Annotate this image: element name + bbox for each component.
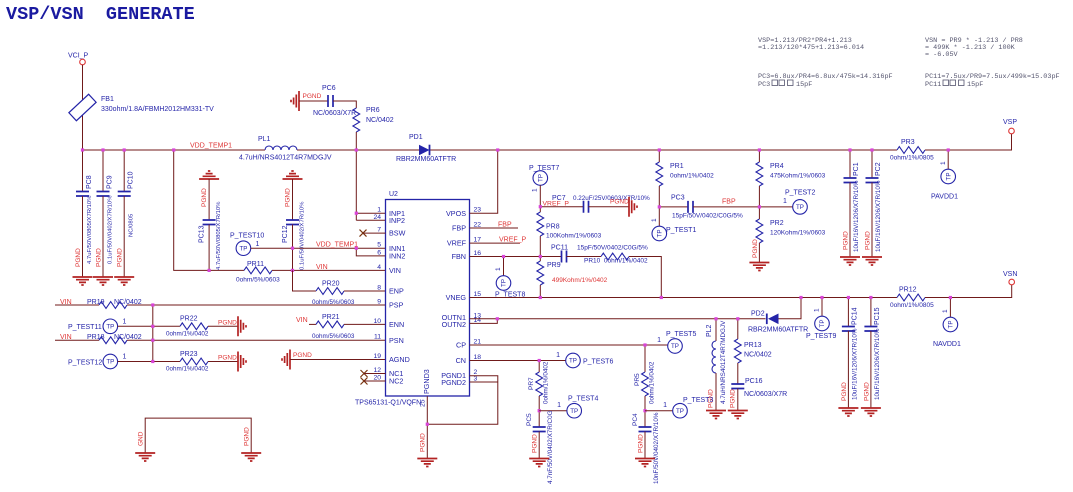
no-connect NC2 pin 20 <box>361 378 368 385</box>
svg-text:4.7uH/NRS4012T4R7MDGJV: 4.7uH/NRS4012T4R7MDGJV <box>720 320 727 404</box>
svg-text:0ohm/1%/0402: 0ohm/1%/0402 <box>670 173 714 180</box>
svg-text:21: 21 <box>474 339 482 346</box>
svg-text:1: 1 <box>657 337 661 344</box>
testpoint P_TEST4 <box>539 410 567 412</box>
svg-text:0ohm/1%/0402: 0ohm/1%/0402 <box>543 361 550 404</box>
resistor PR7 <box>538 361 540 373</box>
svg-text:VREF: VREF <box>447 239 467 248</box>
svg-text:PR8: PR8 <box>546 224 560 231</box>
resistor PR11 <box>243 269 245 271</box>
svg-text:PC11: PC11 <box>925 81 941 89</box>
svg-text:VIN: VIN <box>316 264 328 271</box>
resistor PR10 series <box>601 253 629 260</box>
wire main rail VDD_TEMP1 <box>83 149 266 151</box>
svg-text:U2: U2 <box>389 191 398 198</box>
svg-text:PC10: PC10 <box>128 171 135 189</box>
svg-text:TP: TP <box>819 320 826 328</box>
svg-text:0ohm/1%/0402: 0ohm/1%/0402 <box>166 366 209 373</box>
svg-text:TP: TP <box>569 358 577 365</box>
svg-text:NC/0402: NC/0402 <box>744 352 772 359</box>
op-amp U2 TPS65131 body <box>386 200 470 397</box>
svg-text:PR20: PR20 <box>322 281 340 288</box>
wire pad pin 25 <box>426 396 428 458</box>
svg-text:15pF/50V/0402/C0G/5%: 15pF/50V/0402/C0G/5% <box>577 245 648 252</box>
svg-text:VNEG: VNEG <box>446 293 467 302</box>
diode PD2 <box>768 314 779 325</box>
svg-text:= -6.05V: = -6.05V <box>925 51 959 59</box>
svg-text:4.7uF/50V/0805/X7R/10%: 4.7uF/50V/0805/X7R/10% <box>216 201 222 270</box>
svg-text:14: 14 <box>474 317 482 324</box>
svg-text:TP: TP <box>106 324 114 331</box>
capacitor PC11 series <box>562 251 567 263</box>
svg-text:RBR2MM60ATFTR: RBR2MM60ATFTR <box>748 327 808 334</box>
no-connect NC1 pin 12 <box>361 370 368 377</box>
resistor PR13 <box>737 319 739 339</box>
svg-text:PR2: PR2 <box>770 220 784 227</box>
svg-text:PSP: PSP <box>389 301 404 310</box>
svg-text:PC2: PC2 <box>875 162 882 176</box>
wire VREF pin 17 stub <box>470 242 521 244</box>
svg-text:20: 20 <box>373 375 381 382</box>
svg-text:11: 11 <box>374 334 381 341</box>
svg-text:PC13: PC13 <box>199 225 206 243</box>
svg-text:VIN: VIN <box>389 266 401 275</box>
svg-text:9: 9 <box>377 299 381 306</box>
svg-text:TP: TP <box>671 343 679 350</box>
svg-text:VDD_TEMP1: VDD_TEMP1 <box>190 143 232 150</box>
svg-text:15pF: 15pF <box>796 81 812 89</box>
svg-text:TP: TP <box>570 408 578 415</box>
svg-text:10: 10 <box>373 318 381 325</box>
svg-text:10uF/16V/1206/X7R/10%: 10uF/16V/1206/X7R/10% <box>874 328 881 400</box>
svg-text:P_TEST4: P_TEST4 <box>568 396 598 403</box>
svg-text:P_TEST5: P_TEST5 <box>666 331 696 338</box>
resistor PR9 <box>537 261 544 285</box>
svg-text:PGND: PGND <box>610 199 629 206</box>
svg-text:12: 12 <box>373 367 381 374</box>
svg-text:VDD_TEMP1: VDD_TEMP1 <box>316 242 358 249</box>
junction VREF_P node <box>539 205 542 208</box>
svg-text:0ohm/1%/0402: 0ohm/1%/0402 <box>649 361 656 404</box>
svg-text:CP: CP <box>456 341 466 350</box>
svg-text:1: 1 <box>532 188 539 192</box>
svg-text:TP: TP <box>538 174 545 182</box>
svg-text:TP: TP <box>239 245 247 252</box>
svg-text:0.1uF/50V/0402/X7R/10%: 0.1uF/50V/0402/X7R/10% <box>108 195 114 264</box>
svg-text:PR7: PR7 <box>528 377 535 390</box>
svg-text:PC1: PC1 <box>853 162 860 176</box>
wire VCI_P to rail <box>82 65 84 150</box>
wire INP1 INP2 feed <box>356 212 385 214</box>
svg-text:P_TEST6: P_TEST6 <box>583 359 613 366</box>
svg-text:TP: TP <box>106 359 114 366</box>
svg-text:0ohm/5%/0603: 0ohm/5%/0603 <box>312 299 355 306</box>
svg-text:18: 18 <box>474 354 482 361</box>
svg-text:PR12: PR12 <box>899 287 917 294</box>
resistor PR23 to PGND <box>118 361 180 363</box>
capacitor PC8 <box>82 150 84 192</box>
svg-text:PR3: PR3 <box>901 139 915 146</box>
resistor PR6 <box>353 108 360 132</box>
svg-text:7: 7 <box>377 227 381 234</box>
svg-text:PGND: PGND <box>284 188 291 207</box>
svg-text:FB1: FB1 <box>101 96 114 103</box>
svg-text:PR4: PR4 <box>770 163 784 170</box>
svg-text:25: 25 <box>420 399 427 407</box>
testpoint P_TEST2 <box>759 206 792 208</box>
inductor PL1 <box>265 146 297 150</box>
svg-text:24: 24 <box>373 214 381 221</box>
svg-text:PR6: PR6 <box>366 107 380 114</box>
ferrite bead FB1 <box>69 94 96 120</box>
testpoint P_TEST8 <box>503 257 505 276</box>
svg-text:1: 1 <box>783 198 787 205</box>
wire FBP pin 22 stub <box>470 227 519 229</box>
svg-text:PR1: PR1 <box>670 163 684 170</box>
svg-text:VIN: VIN <box>296 317 308 324</box>
svg-text:P_TEST7: P_TEST7 <box>529 165 559 172</box>
svg-text:PC12: PC12 <box>282 225 289 243</box>
svg-text:22: 22 <box>474 222 482 229</box>
svg-text:TP: TP <box>657 230 664 238</box>
svg-text:17: 17 <box>474 237 482 244</box>
svg-text:VSP: VSP <box>1003 119 1017 126</box>
svg-text:10nF/50V/0402/X7R/10%: 10nF/50V/0402/X7R/10% <box>653 412 660 484</box>
svg-text:PR23: PR23 <box>180 351 198 358</box>
svg-text:TP: TP <box>948 321 955 329</box>
svg-text:1: 1 <box>495 267 502 271</box>
resistor PR22 to PGND <box>118 325 180 327</box>
svg-text:4: 4 <box>377 264 381 271</box>
wire VPOS pin 23 to rail <box>470 150 498 213</box>
svg-text:PGND: PGND <box>752 239 759 258</box>
svg-text:PL1: PL1 <box>258 136 271 143</box>
svg-text:PD1: PD1 <box>409 134 423 141</box>
svg-text:8: 8 <box>377 285 381 292</box>
svg-text:1: 1 <box>556 352 560 359</box>
svg-text:FBP: FBP <box>722 199 736 206</box>
wire PD2 anode to VNEG <box>779 298 802 319</box>
svg-text:NC/0603/X7R: NC/0603/X7R <box>744 391 787 398</box>
power PGND for AGND pin <box>282 350 290 370</box>
svg-text:PC8: PC8 <box>86 175 93 189</box>
svg-text:INP2: INP2 <box>389 216 405 225</box>
resistor PR5 <box>644 345 646 372</box>
capacitor PC13 <box>199 171 219 179</box>
svg-text:NAVDD1: NAVDD1 <box>933 341 961 348</box>
svg-text:PGND: PGND <box>532 434 539 453</box>
svg-text:PC14: PC14 <box>852 307 859 325</box>
svg-text:15pF/50V/0402/C0G/5%: 15pF/50V/0402/C0G/5% <box>672 213 743 220</box>
wire rail drop to VIN line <box>174 150 244 270</box>
svg-text:PGND: PGND <box>865 231 872 250</box>
wire P_TEST7 to VREF_P node <box>539 185 541 206</box>
svg-text:1: 1 <box>557 402 561 409</box>
svg-text:1: 1 <box>651 218 658 222</box>
svg-text:PGND: PGND <box>201 188 208 207</box>
svg-text:15pF: 15pF <box>967 81 983 89</box>
svg-text:NC/0805: NC/0805 <box>129 213 135 237</box>
svg-text:PC7: PC7 <box>552 195 566 202</box>
svg-text:PC15: PC15 <box>874 307 881 325</box>
svg-text:0ohm/5%/0603: 0ohm/5%/0603 <box>312 333 355 340</box>
capacitor PC15 <box>870 298 872 327</box>
wire to VSN port <box>925 285 1012 298</box>
svg-text:10uF/16V/1206/X7R/10%: 10uF/16V/1206/X7R/10% <box>875 180 882 252</box>
svg-text:1: 1 <box>123 354 127 361</box>
svg-text:PGND2: PGND2 <box>441 378 466 387</box>
svg-text:0ohm/1%/0805: 0ohm/1%/0805 <box>890 155 934 162</box>
note VSP formula <box>758 37 864 52</box>
svg-text:BSW: BSW <box>389 229 406 238</box>
wire FBN pin 16 line <box>470 256 562 258</box>
svg-text:P_TEST10: P_TEST10 <box>230 233 264 240</box>
svg-text:PC3: PC3 <box>671 195 685 202</box>
svg-text:PC6: PC6 <box>322 85 336 92</box>
svg-text:499Kohm/1%/0402: 499Kohm/1%/0402 <box>552 277 608 284</box>
svg-text:15: 15 <box>474 291 482 298</box>
svg-text:PGND: PGND <box>75 248 82 267</box>
diode PD1 <box>419 145 430 156</box>
svg-text:0ohm/1%/0402: 0ohm/1%/0402 <box>166 331 209 338</box>
wire PGND1 PGND2 to pad <box>427 376 498 425</box>
testpoint P_TEST3 <box>645 410 673 412</box>
svg-text:PR22: PR22 <box>180 316 198 323</box>
svg-text:4.7uH/NRS4012T4R7MDGJV: 4.7uH/NRS4012T4R7MDGJV <box>239 155 332 162</box>
note VSN formula <box>925 37 1023 59</box>
svg-text:RBR2MM60ATFTR: RBR2MM60ATFTR <box>396 156 456 163</box>
capacitor PC4 <box>639 427 652 432</box>
svg-text:1: 1 <box>256 241 260 248</box>
svg-text:TPS65131-Q1/VQFN: TPS65131-Q1/VQFN <box>355 400 421 407</box>
svg-text:120Kohm/1%/0603: 120Kohm/1%/0603 <box>770 230 826 237</box>
capacitor PC2 <box>871 150 873 178</box>
svg-text:AGND: AGND <box>389 355 410 364</box>
svg-text:P_TEST1: P_TEST1 <box>666 227 696 234</box>
svg-text:PR11: PR11 <box>247 261 264 268</box>
resistor PR2 to PGND <box>756 219 763 243</box>
svg-text:PC16: PC16 <box>745 378 763 385</box>
wire OUTN1 OUTN2 merge <box>470 318 766 320</box>
svg-text:=1.213/120*475+1.213=6.014: =1.213/120*475+1.213=6.014 <box>758 44 864 52</box>
svg-text:100Kohm/1%/0603: 100Kohm/1%/0603 <box>546 233 602 240</box>
svg-text:PR10 0ohm/1%/0402: PR10 0ohm/1%/0402 <box>584 258 648 265</box>
svg-text:TP: TP <box>676 408 684 415</box>
resistor PR3 <box>897 147 925 154</box>
svg-text:PGND: PGND <box>730 389 737 408</box>
svg-text:P_TEST3: P_TEST3 <box>683 397 713 404</box>
testpoint P_TEST9 <box>821 298 823 317</box>
wire CN pin 18 line <box>470 360 566 362</box>
svg-text:4.7uF/50V/0805/X7R/10%: 4.7uF/50V/0805/X7R/10% <box>87 195 93 264</box>
svg-text:10uF/16V/1206/X7R/10%: 10uF/16V/1206/X7R/10% <box>852 328 859 400</box>
capacitor PC14 <box>847 298 849 327</box>
testpoint PAVDD1 <box>947 150 949 169</box>
testpoint P_TEST1 <box>658 207 660 226</box>
capacitor PC12 <box>283 171 303 179</box>
testpoint NAVDD1 <box>949 298 951 318</box>
svg-text:PGND: PGND <box>638 434 645 453</box>
svg-text:TP: TP <box>945 173 952 181</box>
svg-text:PGND: PGND <box>218 355 237 362</box>
svg-text:PD2: PD2 <box>751 311 765 318</box>
svg-text:VSP/VSN GENERATE: VSP/VSN GENERATE <box>6 4 195 25</box>
svg-text:VSN: VSN <box>1003 271 1017 278</box>
svg-text:FBP: FBP <box>498 222 512 229</box>
svg-text:GND: GND <box>138 431 145 446</box>
resistor PR1 <box>658 150 660 162</box>
note PC11 value calc <box>925 73 1060 89</box>
capacitor PC9 <box>102 150 104 192</box>
capacitor PC5 <box>533 427 546 432</box>
svg-text:6: 6 <box>377 249 381 256</box>
inductor PL2 <box>715 319 717 341</box>
svg-text:FBN: FBN <box>452 252 466 261</box>
svg-text:PGND: PGND <box>843 231 850 250</box>
svg-text:NC2: NC2 <box>389 377 403 386</box>
svg-text:23: 23 <box>474 207 482 214</box>
svg-text:PC4: PC4 <box>632 413 639 426</box>
wire VDD_TEMP1 to INN pins <box>251 247 386 249</box>
capacitor PC16 <box>731 384 744 389</box>
svg-text:PL2: PL2 <box>706 324 713 337</box>
svg-text:PC3=6.8ux/PR4=6.8ux/475k=14.31: PC3=6.8ux/PR4=6.8ux/475k=14.316pF <box>758 73 893 81</box>
svg-text:PGND: PGND <box>218 320 237 327</box>
svg-text:P_TEST11: P_TEST11 <box>68 324 102 331</box>
svg-text:PAVDD1: PAVDD1 <box>931 194 958 201</box>
svg-text:OUTN2: OUTN2 <box>442 320 466 329</box>
svg-text:ENN: ENN <box>389 320 404 329</box>
svg-text:10uF/16V/1206/X7R/10%: 10uF/16V/1206/X7R/10% <box>853 180 860 252</box>
svg-text:0ohm/1%/0805: 0ohm/1%/0805 <box>890 302 934 309</box>
svg-text:VREF_P: VREF_P <box>499 237 527 244</box>
svg-text:330ohm/1.8A/FBMH2012HM331-TV: 330ohm/1.8A/FBMH2012HM331-TV <box>101 106 214 113</box>
resistor PR4 <box>758 150 760 162</box>
svg-text:0.1uF/50V/0402/X7R/10%: 0.1uF/50V/0402/X7R/10% <box>299 201 305 270</box>
svg-text:CN: CN <box>456 356 466 365</box>
svg-text:1: 1 <box>123 319 127 326</box>
svg-text:475Kohm/1%/0603: 475Kohm/1%/0603 <box>770 173 826 180</box>
svg-text:PGND: PGND <box>420 433 427 452</box>
svg-text:PC3: PC3 <box>758 81 770 89</box>
svg-text:PGND3: PGND3 <box>422 369 431 394</box>
capacitor PC10 <box>123 150 125 192</box>
svg-text:PR9: PR9 <box>547 262 561 269</box>
svg-text:INN2: INN2 <box>389 252 405 261</box>
svg-text:PGND: PGND <box>96 248 103 267</box>
svg-text:PGND: PGND <box>117 248 124 267</box>
svg-text:PSN: PSN <box>389 336 404 345</box>
svg-text:P_TEST2: P_TEST2 <box>785 190 815 197</box>
svg-text:PGND: PGND <box>293 352 312 359</box>
capacitor PC1 <box>849 150 851 178</box>
svg-text:PGND: PGND <box>303 93 322 100</box>
svg-text:TP: TP <box>796 204 804 211</box>
svg-text:PR13: PR13 <box>744 342 762 349</box>
svg-text:3: 3 <box>474 376 478 383</box>
svg-text:4.7nF/50V/0402/X7R/C0G: 4.7nF/50V/0402/X7R/C0G <box>547 410 554 484</box>
wire tie vertical x152.8 <box>152 305 154 362</box>
svg-text:1: 1 <box>814 308 821 312</box>
svg-text:P_TEST12: P_TEST12 <box>68 360 102 367</box>
svg-text:PC9: PC9 <box>107 175 114 189</box>
svg-text:1: 1 <box>377 207 381 214</box>
svg-text:5: 5 <box>377 242 381 249</box>
resistor PR8 <box>537 212 544 236</box>
wire GND-PGND net tie <box>145 418 251 453</box>
svg-text:ENP: ENP <box>389 287 404 296</box>
svg-text:P_TEST9: P_TEST9 <box>806 333 836 340</box>
svg-text:PR5: PR5 <box>634 373 641 386</box>
svg-text:PC5: PC5 <box>526 413 533 426</box>
svg-text:PC11: PC11 <box>551 245 568 252</box>
svg-text:FBP: FBP <box>452 224 466 233</box>
svg-text:PGND: PGND <box>244 427 251 446</box>
svg-text:NC/0603/X7R: NC/0603/X7R <box>313 110 356 117</box>
capacitor PC6 <box>291 91 299 111</box>
resistor PR12 <box>897 294 925 301</box>
no-connect BSW pin 7 <box>360 230 367 237</box>
wire VNEG pin 15 line <box>470 297 898 299</box>
svg-text:1: 1 <box>940 161 947 165</box>
svg-text:PGND: PGND <box>864 382 871 401</box>
svg-text:NC/0402: NC/0402 <box>366 117 394 124</box>
svg-text:VCI_P: VCI_P <box>68 53 89 60</box>
svg-text:1: 1 <box>942 309 949 313</box>
svg-text:TP: TP <box>501 279 508 287</box>
svg-text:1: 1 <box>663 402 667 409</box>
svg-text:0ohm/5%/0603: 0ohm/5%/0603 <box>236 277 280 284</box>
resistor PR20 on ENP line <box>293 270 317 291</box>
junction dots input section <box>81 148 84 151</box>
svg-text:VPOS: VPOS <box>446 209 466 218</box>
note PC3 value calc <box>758 73 893 89</box>
wire CP pin 21 line <box>470 344 668 346</box>
svg-text:PR21: PR21 <box>322 314 340 321</box>
svg-text:19: 19 <box>373 353 381 360</box>
svg-text:16: 16 <box>474 250 482 257</box>
svg-text:PGND: PGND <box>841 382 848 401</box>
